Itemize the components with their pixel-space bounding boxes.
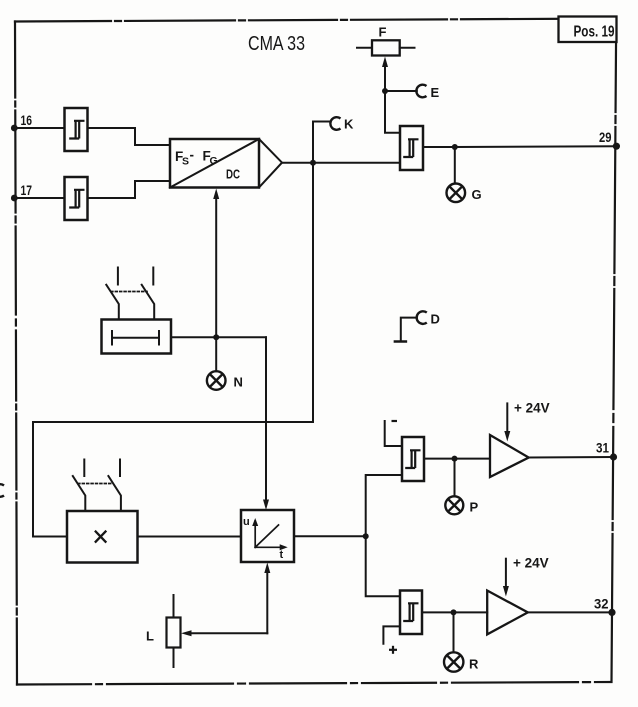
svg-text:31: 31 [596,441,609,456]
svg-text:+ 24V: + 24V [513,556,549,571]
svg-text:G: G [210,155,218,167]
svg-text:t: t [280,549,284,561]
svg-text:u: u [243,516,250,528]
svg-text:P: P [470,500,479,515]
svg-text:+ 24V: + 24V [514,401,550,416]
svg-text:-: - [190,148,195,163]
svg-text:Pos. 19: Pos. 19 [574,24,615,41]
svg-text:S: S [182,156,189,168]
svg-text:K: K [344,117,354,132]
svg-text:29: 29 [599,130,612,145]
svg-text:16: 16 [21,113,33,128]
svg-text:L: L [146,629,154,644]
svg-text:R: R [469,657,479,672]
svg-text:N: N [234,375,243,390]
svg-text:32: 32 [594,597,609,612]
svg-text:D: D [431,312,440,327]
svg-text:G: G [472,187,482,202]
svg-text:DC: DC [226,168,240,182]
svg-text:E: E [431,85,440,100]
svg-text:17: 17 [21,183,33,198]
svg-text:F: F [379,25,387,40]
svg-text:CMA 33: CMA 33 [248,33,305,55]
